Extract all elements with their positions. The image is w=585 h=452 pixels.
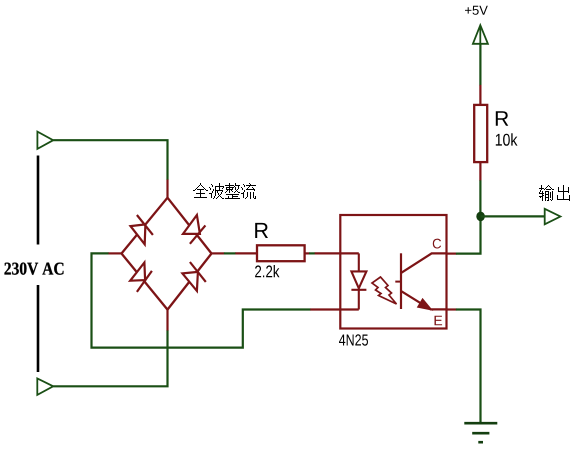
diode D1 (top-left) [131, 215, 153, 244]
phototransistor base bar [400, 253, 402, 309]
diode D4 (bottom-right) [182, 262, 205, 291]
wire: bottom AC terminal to bridge bottom [53, 330, 167, 386]
label bridge 全波整流 [193, 183, 256, 199]
label output 输出 [539, 185, 570, 201]
wire: node to output terminal [481, 215, 545, 217]
pin: R1 right [305, 252, 310, 254]
pin stub: bridge right vertex [212, 252, 225, 254]
AC source body line (lower) [37, 285, 40, 372]
label R (R1) [255, 223, 268, 238]
power symbol +5V arrow [473, 25, 488, 44]
wire: C pin to output node [456, 220, 481, 254]
AC input terminal top [37, 132, 53, 149]
pin: optocoupler LED anode [315, 252, 359, 254]
ground symbol [464, 423, 497, 442]
pin: optocoupler LED cathode [310, 308, 359, 310]
phototransistor emitter [402, 291, 447, 309]
bridge rectifier arms [122, 198, 212, 310]
wire: bridge to R1 [224, 252, 236, 254]
label 230V AC [5, 263, 64, 275]
diode D3 (bottom-left) [130, 263, 152, 292]
label E [435, 316, 443, 326]
wire: +5V to R2 [479, 44, 481, 86]
junction node [476, 212, 485, 222]
pin stub: bridge top vertex [166, 180, 168, 198]
diode D2 (top-right) [183, 215, 205, 244]
output terminal [545, 209, 561, 225]
pin stub: bridge left vertex [108, 252, 122, 254]
wire: R2 to output node [479, 180, 481, 216]
label C [433, 239, 441, 249]
label R (R2) [496, 111, 509, 125]
resistor R2 body [474, 105, 487, 162]
emitter arrowhead [418, 299, 431, 309]
optocoupler U1 box [340, 215, 446, 329]
AC source body line (upper) [37, 156, 40, 245]
resistor R1 body [257, 245, 305, 261]
wire: bridge left vertex loop to optocoupler cathode [92, 253, 311, 347]
light arrow (lightning bolt) [372, 277, 397, 304]
wire: E pin to ground [456, 310, 481, 423]
label 4N25 [339, 334, 368, 345]
phototransistor collector [402, 253, 447, 272]
label 10k [496, 133, 518, 146]
pin: R1 left [235, 252, 257, 254]
label +5V [465, 6, 488, 15]
pin stub: bridge bottom vertex [166, 310, 168, 331]
pin: R2 bottom [479, 162, 481, 181]
wire: top AC terminal to bridge top [53, 140, 167, 180]
pin: optocoupler emitter E [447, 308, 457, 310]
phototransistor base stub [395, 281, 401, 283]
label 2.2k [255, 265, 279, 277]
pin: R2 top [479, 85, 481, 105]
pin: optocoupler collector C [447, 253, 457, 255]
LED inside optocoupler [351, 253, 366, 309]
AC input terminal bottom [37, 378, 53, 395]
wire: R1 to optocoupler anode [309, 252, 315, 254]
